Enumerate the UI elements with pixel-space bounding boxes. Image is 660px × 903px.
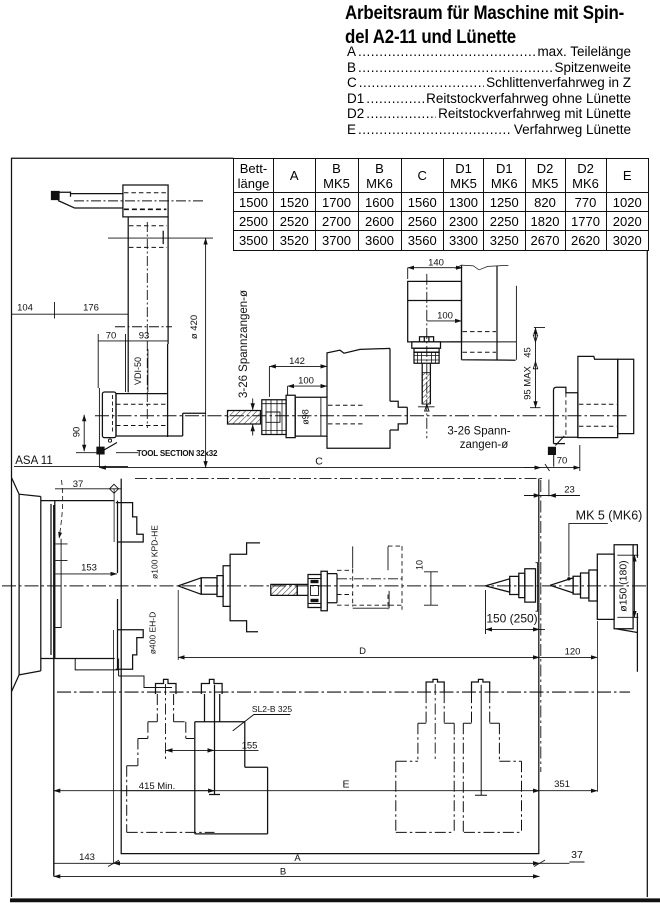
clamp block dashed lines xyxy=(124,192,166,194)
phantom holder (second position) dashed xyxy=(337,546,402,610)
svg-text:C: C xyxy=(315,456,323,468)
centre cylinder xyxy=(201,578,217,595)
collet flange (axis) xyxy=(321,571,327,611)
mid collet flange xyxy=(286,395,295,437)
dim ø420 vertical xyxy=(205,238,207,468)
dim 45 / 95 MAX vertical xyxy=(535,328,537,408)
dim E / 415 / 351 line xyxy=(54,790,215,792)
chuck back plate xyxy=(41,501,115,659)
right turret plate xyxy=(618,359,634,433)
leader MK 5 (MK6) xyxy=(569,524,608,577)
bed way cap 4 xyxy=(472,679,490,692)
tool clamp left plate xyxy=(98,388,100,468)
dim 70 / 93 line xyxy=(98,334,168,392)
legend D2 xyxy=(347,106,631,122)
mid body dashed xyxy=(328,405,363,424)
chuck bell housing xyxy=(12,478,41,692)
column dashed lines xyxy=(463,332,497,353)
dim 90 vertical xyxy=(83,415,85,451)
svg-text:176: 176 xyxy=(83,303,99,314)
saddle centre line xyxy=(209,685,220,795)
svg-text:155: 155 xyxy=(242,741,258,752)
chuck body front face xyxy=(117,501,119,670)
vertical drawbar hatched part xyxy=(422,373,430,404)
svg-text:A: A xyxy=(294,853,301,864)
legend E xyxy=(347,122,631,138)
mid body step out xyxy=(390,401,407,430)
legend D1 xyxy=(347,91,631,107)
main spindle axis centre line xyxy=(2,585,646,587)
inner box top dash-dot xyxy=(135,478,545,480)
dim C line xyxy=(99,467,541,469)
svg-text:ø150 (180): ø150 (180) xyxy=(618,560,630,611)
global centre line (tool level) xyxy=(95,415,628,417)
leader to clamp ring xyxy=(60,480,63,533)
tailstock centre cone xyxy=(550,576,573,594)
svg-text:ASA 11: ASA 11 xyxy=(15,455,53,467)
svg-text:37: 37 xyxy=(571,849,583,861)
extension centre tip (D) xyxy=(177,590,179,660)
saddle block solid xyxy=(195,694,268,834)
bed way cap 2 xyxy=(201,679,222,694)
svg-text:70: 70 xyxy=(557,456,568,467)
frame bottom thick border xyxy=(10,898,660,902)
cap 3 centre line xyxy=(434,684,436,761)
svg-text:100: 100 xyxy=(437,311,453,322)
mid workpiece hatched bar xyxy=(228,411,261,425)
svg-text:ø98: ø98 xyxy=(301,409,311,425)
svg-text:ø100 KPD-HE: ø100 KPD-HE xyxy=(150,525,160,579)
bed profile 4 phantom xyxy=(463,692,521,832)
turret tool bit (top left) xyxy=(52,192,60,200)
cap 4 centre line xyxy=(475,685,487,795)
chuck clamp ring line xyxy=(56,539,68,628)
mid spindle rotated label arrows (3-26) xyxy=(252,399,254,436)
column dashed lines xyxy=(129,226,167,248)
svg-text:70: 70 xyxy=(106,331,117,342)
workpiece right centre cone xyxy=(486,579,510,592)
extension from 37 diamond xyxy=(113,489,115,542)
dim 140 xyxy=(408,267,463,269)
dim 10 (phantom) xyxy=(424,572,438,605)
dim 155 xyxy=(166,749,259,751)
bed profile 1 phantom xyxy=(127,694,215,832)
svg-text:ø400 EH-D: ø400 EH-D xyxy=(148,612,158,655)
right boom dashed xyxy=(565,393,567,438)
svg-text:90: 90 xyxy=(72,427,83,438)
dim 23 xyxy=(524,495,580,497)
bed ways top line xyxy=(57,691,630,693)
dim 70 (right) continuation xyxy=(524,467,580,469)
quill face lines xyxy=(536,563,538,612)
spindle stub body (axis) xyxy=(327,574,337,603)
column right thin edge xyxy=(515,286,517,360)
chuck bottom step xyxy=(55,659,172,688)
housing dashed lines xyxy=(116,404,168,425)
right centre flange xyxy=(519,573,525,597)
tailstock taper shank xyxy=(589,570,597,601)
svg-text:MK 5 (MK6): MK 5 (MK6) xyxy=(576,509,643,523)
bed way cap 1 xyxy=(156,679,177,694)
svg-text:23: 23 xyxy=(564,485,575,496)
svg-text:37: 37 xyxy=(73,479,84,490)
extension line chuck face (A/143) xyxy=(113,630,115,863)
leader for TOOL SECTION xyxy=(116,452,138,454)
extension line left (B) xyxy=(53,505,55,876)
svg-text:E: E xyxy=(342,779,349,791)
dim 37 top-left with diamond xyxy=(55,488,121,490)
vertical collet tee xyxy=(420,337,434,342)
cap 1 centre line xyxy=(165,684,167,760)
inner workspace box xyxy=(121,479,539,854)
svg-text:150 (250): 150 (250) xyxy=(486,612,537,626)
mid spindle body xyxy=(327,348,390,448)
mid spindle nose xyxy=(295,397,327,436)
svg-text:10: 10 xyxy=(415,560,425,570)
right tool bit xyxy=(549,447,556,454)
dim 150 (250) xyxy=(486,628,540,630)
vertical collet flange 1 xyxy=(412,342,441,348)
turret clamp block xyxy=(123,185,168,217)
bed profile 3 phantom xyxy=(396,692,454,832)
bed way cap 3 xyxy=(426,679,444,692)
right block dashed lines xyxy=(579,404,617,426)
svg-text:153: 153 xyxy=(81,563,97,574)
turret column xyxy=(128,217,168,393)
svg-text:SL2-B 325: SL2-B 325 xyxy=(252,704,292,714)
svg-text:120: 120 xyxy=(565,647,581,658)
boom center line xyxy=(74,200,205,202)
turret column centre line vertical xyxy=(146,222,148,428)
chuck jaw top xyxy=(116,503,143,542)
tailstock datum dash-dot vertical xyxy=(540,480,542,772)
line under column to 45-dim xyxy=(450,341,517,343)
tailstock column xyxy=(462,265,516,360)
centre flange xyxy=(223,566,230,607)
svg-text:95 MAX: 95 MAX xyxy=(523,365,534,399)
vertical drawbar rod xyxy=(422,363,430,404)
turret housing body xyxy=(116,344,206,437)
extension line to dim ø420 xyxy=(108,237,213,239)
dim D / 120 line xyxy=(178,656,539,658)
svg-text:zangen-ø: zangen-ø xyxy=(460,439,509,451)
holder bracket top xyxy=(230,543,260,566)
leader SL2-B 325 xyxy=(233,715,291,731)
svg-text:104: 104 xyxy=(17,303,33,314)
dim ø150 (180) vertical xyxy=(634,555,636,617)
data table xyxy=(233,158,649,251)
head centre line vertical xyxy=(426,274,428,438)
drawbar hatched xyxy=(271,584,297,595)
svg-text:93: 93 xyxy=(139,331,150,342)
svg-text:351: 351 xyxy=(554,779,570,790)
svg-text:ø 420: ø 420 xyxy=(189,315,200,339)
dim A / 143 line xyxy=(114,862,540,864)
head block inner line xyxy=(408,300,462,302)
svg-text:VDI-50: VDI-50 xyxy=(133,357,143,385)
collet nut (axis) xyxy=(308,575,321,608)
tool holder wedge xyxy=(58,192,75,209)
tailstock housing right xyxy=(616,545,638,672)
tailstock front plate xyxy=(614,545,633,629)
dim 100 (vertical head) xyxy=(427,320,462,322)
lower tool bit xyxy=(97,447,104,454)
column centre mark cross xyxy=(162,231,164,244)
dim ø150 (180) extension lines xyxy=(617,555,638,617)
dim 142 xyxy=(269,365,327,367)
legend A xyxy=(347,44,631,60)
drawing frame xyxy=(12,158,648,897)
VDI-50 text rule xyxy=(147,349,149,392)
extension 351/120 xyxy=(596,621,598,792)
svg-text:142: 142 xyxy=(289,356,305,367)
svg-text:3-26 Spannzangen-ø: 3-26 Spannzangen-ø xyxy=(238,290,250,398)
svg-text:B: B xyxy=(280,867,286,878)
svg-text:3-26 Spann-: 3-26 Spann- xyxy=(447,426,510,438)
svg-text:45: 45 xyxy=(523,347,534,358)
column lower centre mark xyxy=(115,326,172,328)
svg-text:415 Min.: 415 Min. xyxy=(139,781,175,792)
dim B line xyxy=(54,875,540,877)
right centre quill xyxy=(525,569,536,602)
svg-text:100: 100 xyxy=(298,376,314,387)
svg-text:143: 143 xyxy=(79,852,95,863)
column break line xyxy=(455,265,508,270)
right centre cylinder xyxy=(510,576,519,594)
svg-text:D: D xyxy=(359,646,366,657)
vertical collet nut xyxy=(414,352,439,363)
holder bracket bottom xyxy=(230,606,258,631)
svg-text:TOOL SECTION 32x32: TOOL SECTION 32x32 xyxy=(137,449,218,458)
boom arm xyxy=(71,194,123,208)
legend B xyxy=(347,60,631,76)
chuck jaw bottom xyxy=(116,630,143,669)
tailstock quill body xyxy=(597,554,614,619)
dim 104 / 176 line xyxy=(12,302,129,319)
tailstock centre sleeve xyxy=(573,576,580,594)
dim 153 xyxy=(56,573,118,575)
dead centre cone (left) xyxy=(178,578,201,595)
vertical head block 140 xyxy=(408,281,462,342)
legend C xyxy=(347,75,631,91)
right turret boom xyxy=(554,387,578,443)
ASA 11 underline xyxy=(14,466,128,468)
centre ring xyxy=(217,576,223,597)
vertical collet flange 2 xyxy=(414,348,439,352)
dim 100 (mid) xyxy=(288,385,327,387)
tailstock centre step xyxy=(581,573,589,598)
title heading xyxy=(345,2,656,49)
svg-text:140: 140 xyxy=(428,258,444,269)
mid collet nut xyxy=(262,400,286,435)
drawbar tip tick xyxy=(418,404,435,411)
right turret main block xyxy=(578,356,618,437)
